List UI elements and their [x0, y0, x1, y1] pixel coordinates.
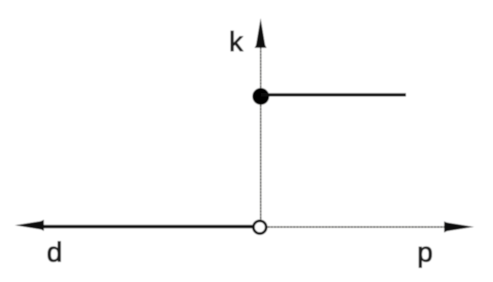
left arrowhead: [15, 220, 44, 231]
vertical axis (dotted gray): [260, 44, 262, 221]
step dot (filled circle): [252, 88, 269, 105]
svg-text:d: d: [47, 236, 63, 267]
left thick axis segment (lower branch): [40, 225, 253, 228]
right thin axis (dotted gray): [268, 226, 446, 228]
step line (upper branch): [261, 93, 406, 96]
svg-text:p: p: [417, 237, 433, 268]
origin open circle: [253, 221, 266, 234]
right arrowhead: [444, 221, 474, 232]
svg-text:k: k: [229, 26, 244, 57]
up arrowhead: [255, 18, 267, 48]
